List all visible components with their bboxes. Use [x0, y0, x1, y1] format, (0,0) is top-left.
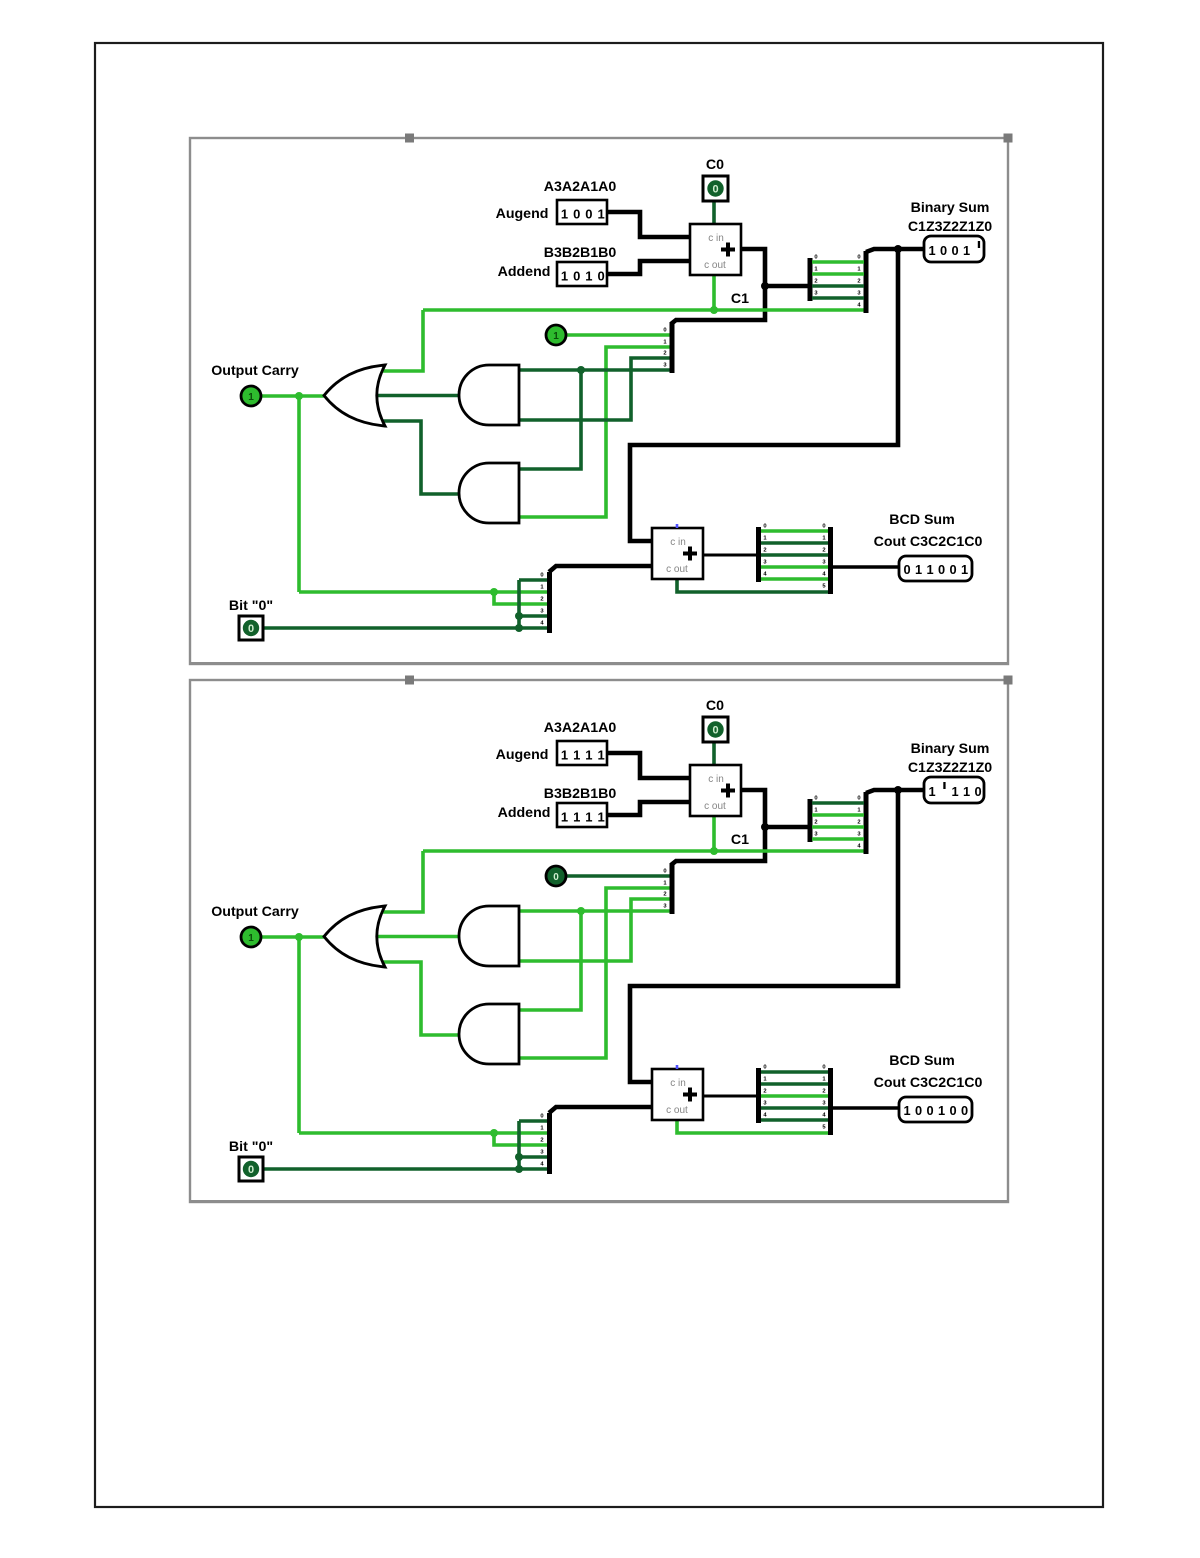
wire OR out to Output Carry pin	[261, 394, 327, 398]
svg-text:Output Carry: Output Carry	[211, 363, 299, 379]
svg-text:C1Z3Z2Z1Z0: C1Z3Z2Z1Z0	[908, 219, 992, 235]
wire Addend bus to adder B	[607, 802, 690, 815]
svg-text:1: 1	[597, 207, 604, 222]
wire BCD bus to probe	[833, 565, 899, 568]
svg-text:2: 2	[540, 1138, 543, 1144]
svg-text:1: 1	[903, 1103, 910, 1118]
splitter Z fan-out bar	[670, 322, 675, 373]
svg-text:C1: C1	[731, 832, 749, 848]
output pin Z0 display	[546, 866, 566, 886]
svg-text:1: 1	[248, 392, 254, 403]
splitter BCD leg 2	[761, 553, 828, 557]
wire binary-sum bus to adder2 A	[630, 249, 898, 541]
svg-text:1: 1	[926, 562, 933, 577]
wire C1 down to OR input	[381, 851, 423, 912]
wire Z2 net	[519, 358, 671, 420]
wire Bit0 pin net	[263, 1167, 547, 1171]
wire Bit0 to B-merge bit3	[519, 1155, 547, 1159]
wire carry to B-merge bit2	[494, 1133, 547, 1145]
svg-text:2: 2	[763, 1089, 766, 1095]
wire B-merge bus to adder2 B	[549, 566, 652, 572]
splitter binary leg 3	[812, 837, 864, 841]
wire AND2 out to OR	[381, 962, 459, 1035]
svg-text:1: 1	[585, 748, 592, 763]
svg-text:Binary Sum: Binary Sum	[911, 741, 990, 757]
wire adder1 sum bus	[671, 790, 765, 865]
splitter binary leg 0	[812, 260, 864, 264]
wire Augend bus to adder A	[607, 753, 690, 778]
input box Augend value	[557, 200, 607, 224]
splitter BCD leg 1	[761, 541, 828, 545]
splitter B-merge digits	[540, 1114, 544, 1168]
svg-text:Augend: Augend	[496, 206, 549, 222]
wire Z3 net	[519, 368, 671, 372]
svg-text:0: 0	[814, 255, 817, 261]
wire adder1 cout	[712, 816, 716, 852]
svg-text:c out: c out	[666, 564, 688, 575]
wire Bit0 up branch	[517, 1121, 521, 1169]
splitter BCD split bar	[756, 1068, 761, 1123]
svg-text:c in: c in	[670, 1078, 686, 1089]
splitter binary leg 2	[812, 825, 864, 829]
svg-text:1: 1	[585, 269, 592, 284]
wire AND2 out to OR	[381, 421, 459, 494]
splitter binary-sum merge bar	[864, 251, 869, 313]
junction Output Carry	[295, 933, 303, 941]
adder U2 floating cin mark	[676, 524, 679, 528]
panel 1 handle corner	[1004, 134, 1013, 143]
wire Augend bus to adder A	[607, 212, 690, 237]
wire Z1 net	[519, 888, 671, 1058]
splitter BCD merge bar	[828, 527, 833, 594]
probe BCD Sum	[899, 1097, 972, 1122]
and-gate G2 (mirrored)	[459, 906, 519, 966]
svg-text:1: 1	[561, 207, 568, 222]
junction Bit0 net a	[515, 612, 523, 620]
svg-text:Cout C3C2C1C0: Cout C3C2C1C0	[874, 534, 983, 550]
input box Augend value	[557, 741, 607, 765]
wire Bit0 to B-merge bit0	[519, 578, 547, 582]
splitter BCD leg 0	[761, 1070, 828, 1074]
svg-text:0: 0	[712, 184, 718, 196]
svg-text:1: 1	[951, 784, 958, 799]
junction Bit0 net b	[515, 624, 523, 632]
svg-text:0: 0	[961, 1103, 968, 1118]
splitter BCD leg 3	[761, 565, 828, 569]
junction Z3	[577, 907, 585, 915]
wire Bit0 pin net	[263, 626, 547, 630]
junction Output Carry	[295, 392, 303, 400]
svg-text:Bit "0": Bit "0"	[229, 1139, 273, 1155]
wire OR out to Output Carry pin	[261, 935, 327, 939]
wire B-merge bus to adder2 B	[549, 1107, 652, 1113]
svg-text:0: 0	[903, 562, 910, 577]
input pin Bit "0"	[239, 1157, 263, 1181]
junction C1	[710, 847, 718, 855]
output pin Output Carry	[241, 927, 261, 947]
wire Z3 net	[519, 909, 671, 913]
adder U2 floating cin mark	[676, 1065, 679, 1069]
svg-text:1: 1	[573, 748, 580, 763]
wire AND1 out to OR	[377, 394, 459, 398]
wire Bit0 up branch	[517, 580, 521, 628]
and-gate G3 (mirrored)	[459, 1004, 519, 1064]
svg-text:0: 0	[597, 269, 604, 284]
splitter binary-sum merge bar	[864, 792, 869, 854]
splitter BCD digits	[763, 1065, 826, 1131]
svg-text:0: 0	[926, 1103, 933, 1118]
svg-text:c out: c out	[704, 260, 726, 271]
junction carry split	[490, 588, 498, 596]
svg-text:C0: C0	[706, 157, 724, 173]
wire adder2 out to BCD splitter	[703, 554, 757, 557]
splitter BCD leg 0	[761, 529, 828, 533]
splitter binary leg 3	[812, 296, 864, 300]
wire Z0 to pin	[566, 874, 671, 878]
svg-text:C0: C0	[706, 698, 724, 714]
svg-text:1: 1	[573, 810, 580, 825]
panel 1 handle mid	[405, 134, 414, 143]
splitter BCD digits	[763, 524, 826, 590]
svg-text:1: 1	[963, 784, 970, 799]
svg-text:Addend: Addend	[498, 805, 551, 821]
splitter B-merge digits	[540, 573, 544, 627]
wire Z3 branch to AND2	[519, 370, 581, 469]
adder U2 4-bit	[652, 1069, 703, 1120]
junction Bit0 net b	[515, 1165, 523, 1173]
svg-text:0: 0	[585, 207, 592, 222]
svg-text:1: 1	[928, 243, 935, 258]
page border frame	[95, 43, 1103, 1507]
adder U1 4-bit	[690, 765, 741, 816]
splitter BCD leg 1	[761, 1082, 828, 1086]
svg-text:BCD Sum: BCD Sum	[889, 1053, 954, 1069]
svg-text:2: 2	[663, 892, 666, 898]
svg-text:1: 1	[928, 784, 935, 799]
wire Output Carry down	[297, 396, 301, 592]
splitter BCD leg 3	[761, 1106, 828, 1110]
svg-text:B3B2B1B0: B3B2B1B0	[544, 245, 617, 261]
wire sum bus branch to splitter	[765, 825, 808, 830]
svg-text:BCD Sum: BCD Sum	[889, 512, 954, 528]
svg-text:0: 0	[938, 562, 945, 577]
output pin Output Carry	[241, 386, 261, 406]
wire C0 to adder1 cin	[712, 201, 716, 224]
splitter BCD leg 4	[761, 577, 828, 581]
svg-text:c out: c out	[666, 1105, 688, 1116]
splitter binary leg 1	[812, 813, 864, 817]
wire merged binary-sum bus to probe	[866, 249, 924, 252]
probe Binary Sum	[924, 777, 984, 803]
svg-text:2: 2	[822, 548, 825, 554]
svg-text:2: 2	[540, 597, 543, 603]
svg-text:0: 0	[763, 1065, 766, 1071]
svg-text:1: 1	[585, 810, 592, 825]
wire C0 to adder1 cin	[712, 742, 716, 765]
splitter binary leg 0	[812, 801, 864, 805]
wire adder2 out to BCD splitter	[703, 1095, 757, 1098]
splitter binary bit digits	[814, 796, 861, 850]
svg-text:0: 0	[553, 872, 559, 883]
wire Bit0 to B-merge bit0	[519, 1119, 547, 1123]
svg-text:c out: c out	[704, 801, 726, 812]
svg-text:0: 0	[814, 796, 817, 802]
svg-text:0: 0	[248, 1164, 254, 1176]
wire Z1 net	[519, 347, 671, 517]
svg-text:0: 0	[915, 1103, 922, 1118]
splitter binary leg 1	[812, 272, 864, 276]
wire Addend bus to adder B	[607, 261, 690, 274]
wire adder1 sum bus	[671, 249, 765, 324]
junction sum bus	[761, 823, 769, 831]
wire Z2 net	[519, 899, 671, 961]
svg-text:c in: c in	[708, 233, 724, 244]
splitter binary-sum split bar	[808, 258, 813, 301]
splitter binary-sum split bar	[808, 799, 813, 842]
and-gate G3 (mirrored)	[459, 463, 519, 523]
svg-text:c in: c in	[708, 774, 724, 785]
wire binary-sum bus to adder2 A	[630, 790, 898, 1082]
svg-text:Augend: Augend	[496, 747, 549, 763]
svg-text:B3B2B1B0: B3B2B1B0	[544, 786, 617, 802]
input pin C0	[703, 176, 728, 201]
svg-text:Output Carry: Output Carry	[211, 904, 299, 920]
input pin Bit "0"	[239, 616, 263, 640]
wire sum bus branch to splitter	[765, 284, 808, 289]
wire C1 down to OR input	[381, 310, 423, 371]
junction Bit0 net a	[515, 1153, 523, 1161]
svg-text:0: 0	[573, 269, 580, 284]
svg-text:2: 2	[814, 279, 817, 285]
svg-text:Cout C3C2C1C0: Cout C3C2C1C0	[874, 1075, 983, 1091]
svg-text:1: 1	[561, 269, 568, 284]
splitter BCD leg 4	[761, 1118, 828, 1122]
svg-text:C1Z3Z2Z1Z0: C1Z3Z2Z1Z0	[908, 760, 992, 776]
adder U1 4-bit	[690, 224, 741, 275]
svg-text:Addend: Addend	[498, 264, 551, 280]
wire Bit0 to B-merge bit3	[519, 614, 547, 618]
svg-text:Bit "0": Bit "0"	[229, 598, 273, 614]
svg-text:2: 2	[822, 1089, 825, 1095]
wire Z3 branch to AND2	[519, 911, 581, 1010]
svg-text:0: 0	[974, 784, 981, 799]
svg-text:1: 1	[248, 933, 254, 944]
wire carry to B-merge bit1	[299, 1131, 547, 1135]
junction binary-sum bus	[894, 786, 902, 794]
wire AND1 out to OR	[377, 935, 459, 939]
and-gate G2 (mirrored)	[459, 365, 519, 425]
or-gate G1 (mirrored)	[324, 365, 385, 426]
svg-text:0: 0	[663, 869, 666, 875]
panel 2 frame	[190, 680, 1008, 1203]
svg-text:2: 2	[857, 820, 860, 826]
splitter BCD leg 2	[761, 1094, 828, 1098]
svg-text:0: 0	[857, 796, 860, 802]
svg-text:1: 1	[561, 810, 568, 825]
svg-text:1: 1	[597, 810, 604, 825]
svg-text:0: 0	[712, 725, 718, 737]
junction Z3	[577, 366, 585, 374]
junction sum bus	[761, 282, 769, 290]
svg-text:0: 0	[822, 524, 825, 530]
splitter Z fan-out digits	[663, 328, 667, 369]
svg-text:2: 2	[814, 820, 817, 826]
or-gate G1 (mirrored)	[324, 906, 385, 967]
wire carry to B-merge bit2	[494, 592, 547, 604]
svg-text:2: 2	[857, 279, 860, 285]
svg-text:1: 1	[915, 562, 922, 577]
wire Output Carry down	[297, 937, 301, 1133]
wire BCD bus to probe	[833, 1106, 899, 1109]
svg-text:Binary Sum: Binary Sum	[911, 200, 990, 216]
svg-text:0: 0	[857, 255, 860, 261]
wire merged binary-sum bus to probe	[866, 790, 924, 793]
svg-text:A3A2A1A0: A3A2A1A0	[544, 720, 617, 736]
svg-text:0: 0	[949, 562, 956, 577]
junction carry split	[490, 1129, 498, 1137]
probe BCD Sum	[899, 556, 972, 581]
wire C1 net	[423, 308, 865, 312]
svg-text:1: 1	[963, 243, 970, 258]
wire carry to B-merge bit1	[299, 590, 547, 594]
svg-text:1: 1	[938, 1103, 945, 1118]
splitter binary bit digits	[814, 255, 861, 309]
wire adder2 cout	[677, 1120, 828, 1133]
splitter BCD split bar	[756, 527, 761, 582]
splitter B-merge bar	[547, 572, 552, 633]
wire adder2 cout	[677, 579, 828, 592]
svg-text:0: 0	[940, 243, 947, 258]
svg-text:0: 0	[663, 328, 666, 334]
svg-text:0: 0	[540, 1114, 543, 1120]
svg-text:0: 0	[763, 524, 766, 530]
junction binary-sum bus	[894, 245, 902, 253]
junction C1	[710, 306, 718, 314]
svg-text:0: 0	[951, 243, 958, 258]
wire Z0 to pin	[566, 333, 671, 337]
svg-text:0: 0	[248, 623, 254, 635]
svg-text:c in: c in	[670, 537, 686, 548]
svg-text:A3A2A1A0: A3A2A1A0	[544, 179, 617, 195]
splitter B-merge bar	[547, 1113, 552, 1174]
svg-text:1: 1	[553, 331, 559, 342]
input box Addend value	[557, 262, 607, 286]
svg-text:2: 2	[763, 548, 766, 554]
splitter Z fan-out digits	[663, 869, 667, 910]
panel 1 frame	[190, 138, 1008, 665]
wire adder1 cout	[712, 275, 716, 311]
output pin Z0 display	[546, 325, 566, 345]
svg-text:0: 0	[573, 207, 580, 222]
svg-text:1: 1	[597, 748, 604, 763]
wire C1 net	[423, 849, 865, 853]
svg-text:2: 2	[663, 351, 666, 357]
input pin C0	[703, 717, 728, 742]
input box Addend value	[557, 803, 607, 827]
splitter BCD merge bar	[828, 1068, 833, 1135]
svg-text:0: 0	[949, 1103, 956, 1118]
svg-text:0: 0	[822, 1065, 825, 1071]
adder U2 4-bit	[652, 528, 703, 579]
svg-text:1: 1	[961, 562, 968, 577]
probe Binary Sum	[924, 236, 984, 262]
panel 2 handle mid	[405, 676, 414, 685]
svg-text:C1: C1	[731, 291, 749, 307]
panel 2 handle corner	[1004, 676, 1013, 685]
splitter binary leg 2	[812, 284, 864, 288]
splitter Z fan-out bar	[670, 863, 675, 914]
svg-text:1: 1	[561, 748, 568, 763]
svg-text:0: 0	[540, 573, 543, 579]
